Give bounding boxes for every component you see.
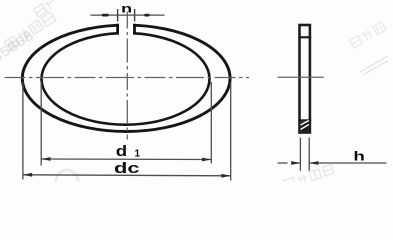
dc extension line right [230,82,232,181]
horizontal centerline of front view [5,77,250,79]
watermark right-mid fragment [360,56,390,75]
h right arrowhead [309,161,318,165]
h extension line right [308,138,310,171]
h dimension line right tail [309,162,386,164]
vertical centerline of front view [126,12,128,140]
watermark bottom-right glyph cluster [283,165,334,189]
side view: cross-section rectangle [300,25,310,133]
dc extension line left [22,82,24,180]
ring front view: outer ellipse [22,25,230,131]
dc left arrowhead [23,173,32,177]
d1 extension line right [210,82,212,164]
svg-text:1: 1 [135,149,141,160]
d1 right arrowhead [202,158,211,162]
side view: gap divider line near top [298,36,311,38]
ring front view: inner ellipse [42,33,210,125]
dc dimension line [23,175,231,176]
h extension line left [299,138,301,171]
n extension line right [134,9,136,22]
svg-text:45868: 45868 [0,27,36,66]
d1 extension line left [40,82,42,166]
n extension line left [117,9,119,22]
h left arrowhead [291,161,300,165]
watermark top-left glyph cluster [4,12,56,50]
watermark top-edge fragment [34,0,57,17]
n dimension line [90,14,164,16]
d1 left arrowhead [41,157,50,161]
watermark top-left digits [0,27,36,66]
svg-text:n: n [121,4,132,16]
d1 dimension line [41,158,211,161]
n right arrow mark [144,14,149,17]
n left arrow mark [102,14,109,17]
side view: divider above hatch [298,119,311,121]
gap cut-out at top of ring [119,17,133,37]
svg-text:dc: dc [114,161,140,177]
svg-text:h: h [353,149,365,164]
watermark top-right glyph cluster [349,22,386,48]
gap right cut face [133,24,136,35]
svg-text:d: d [116,144,127,160]
dc right arrowhead [221,174,230,178]
gap left cut face [116,24,119,35]
side view horizontal centerline [278,76,324,78]
side view: hatched section [301,121,309,132]
h dimension line left tail [278,162,301,164]
watermark bottom faint circle [56,170,78,192]
